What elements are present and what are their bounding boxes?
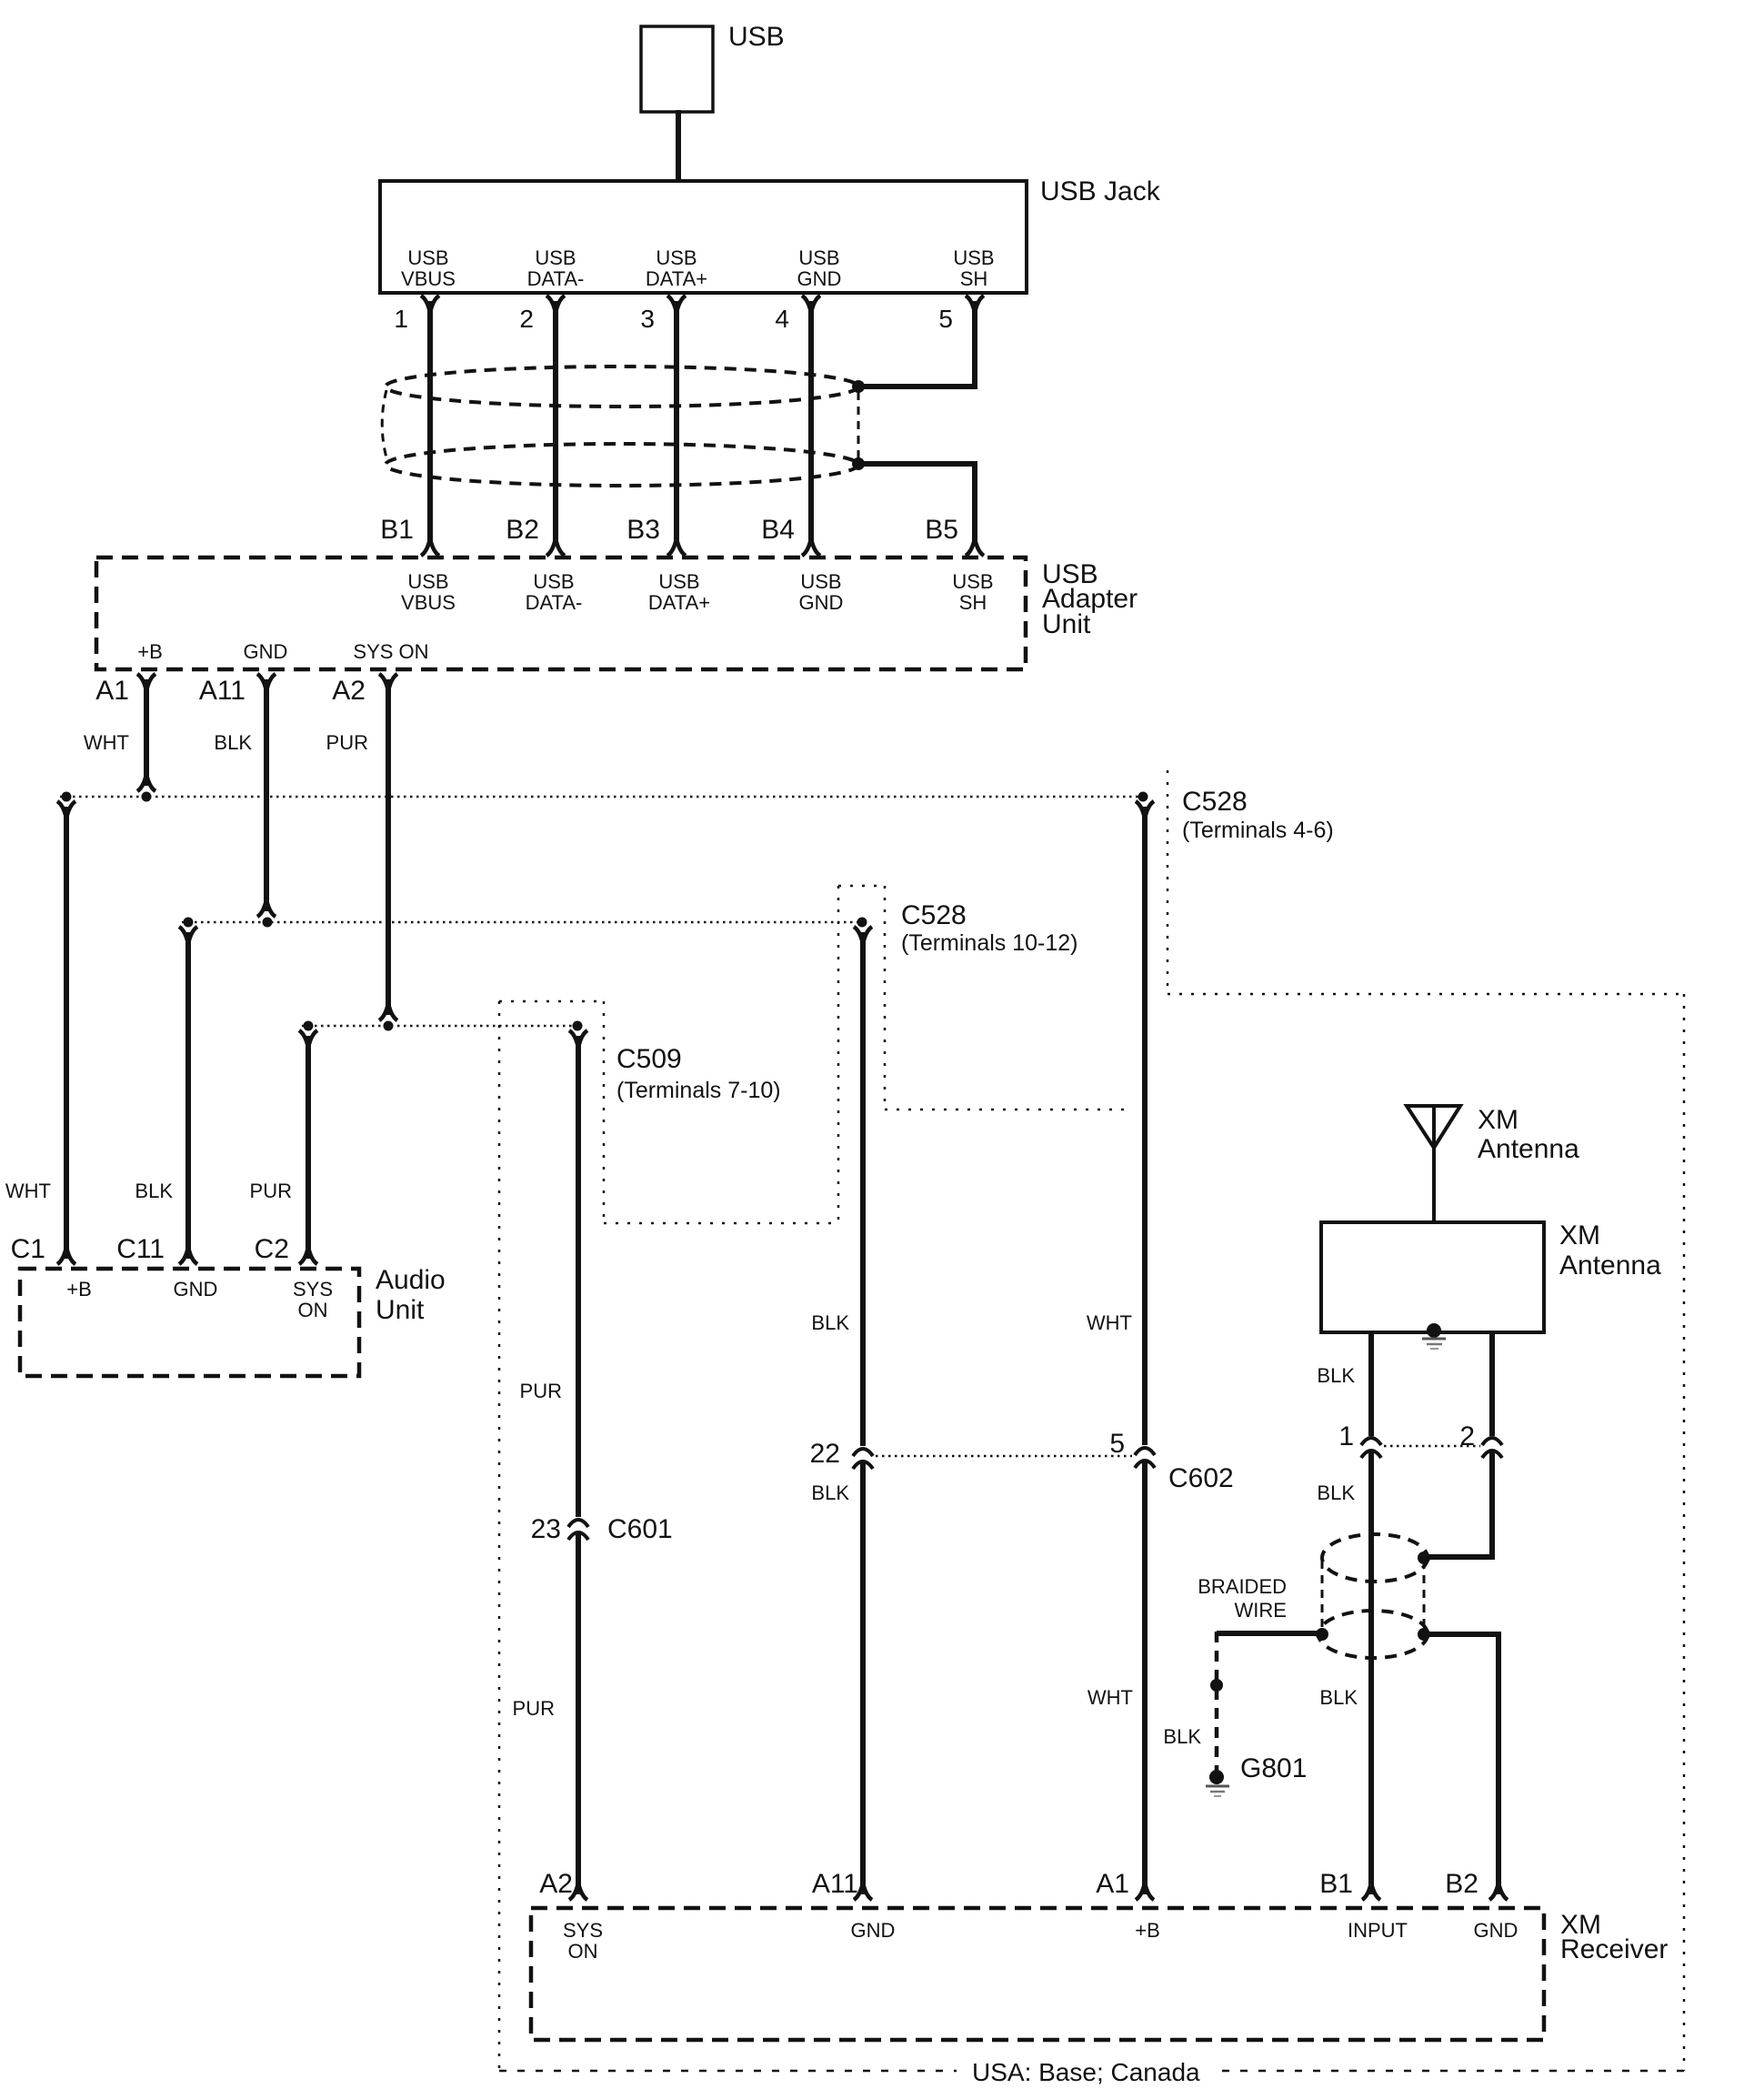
- svg-text:BLK: BLK: [1163, 1725, 1201, 1748]
- svg-text:SH: SH: [960, 267, 988, 290]
- svg-text:USB: USB: [656, 246, 697, 269]
- svg-text:C2: C2: [255, 1234, 289, 1264]
- junction dot C1 start: [62, 792, 72, 802]
- svg-text:GND: GND: [1474, 1919, 1518, 1942]
- wire C11 (BLK): [185, 932, 191, 1259]
- wire +B lower (WHT): [1142, 1461, 1148, 1894]
- junction dot A2 wire: [384, 1021, 394, 1031]
- svg-text:1: 1: [1338, 1421, 1354, 1451]
- svg-text:A2: A2: [332, 676, 366, 706]
- svg-text:GND: GND: [799, 591, 844, 614]
- svg-text:WIRE: WIRE: [1235, 1599, 1287, 1622]
- svg-text:B3: B3: [626, 515, 660, 545]
- svg-text:Unit: Unit: [1042, 609, 1091, 639]
- svg-text:A11: A11: [199, 676, 246, 706]
- svg-text:USB: USB: [533, 570, 574, 593]
- wire antenna GND upper: [1489, 1332, 1495, 1436]
- svg-text:WHT: WHT: [1087, 1686, 1133, 1709]
- connector C602 pin 22: [853, 1449, 873, 1469]
- USB Jack box: [380, 181, 1027, 293]
- boundary left edge: [498, 1001, 501, 2071]
- svg-text:A2: A2: [539, 1869, 573, 1899]
- svg-text:B1: B1: [380, 515, 414, 545]
- shield ellipse lower: [386, 444, 858, 486]
- svg-text:BLK: BLK: [1319, 1686, 1358, 1709]
- svg-text:USB: USB: [728, 22, 785, 52]
- boundary bottom left: [499, 2070, 957, 2073]
- svg-text:B1: B1: [1319, 1869, 1353, 1899]
- wire antenna GND lower: [1424, 1634, 1498, 1894]
- svg-text:22: 22: [810, 1439, 840, 1469]
- svg-text:B4: B4: [761, 515, 795, 545]
- junction dot WHT start: [1138, 792, 1148, 802]
- terminal start GND wire: [854, 927, 872, 940]
- svg-text:WHT: WHT: [5, 1180, 51, 1202]
- svg-text:BLK: BLK: [1317, 1481, 1355, 1504]
- svg-text:SH: SH: [959, 591, 987, 614]
- USB plug box: [641, 26, 713, 112]
- wire GND upper (BLK): [860, 932, 866, 1446]
- boundary segment C509 right: [603, 1001, 606, 1223]
- wire pin 1 to B1: [427, 301, 433, 545]
- svg-text:DATA-: DATA-: [526, 591, 583, 614]
- connector C602 pin 5: [1135, 1448, 1155, 1468]
- svg-text:XM: XM: [1559, 1220, 1600, 1250]
- ground G801 hatch: [1206, 1785, 1229, 1788]
- connector pin 1: [1361, 1438, 1381, 1458]
- junction dot C11 start: [184, 918, 194, 928]
- svg-text:USA: Base; Canada: USA: Base; Canada: [972, 2058, 1200, 2086]
- svg-text:C11: C11: [116, 1234, 165, 1264]
- pin 2 terminal: [546, 296, 565, 309]
- svg-text:+B: +B: [66, 1278, 92, 1301]
- wire A1 end: [137, 778, 155, 791]
- wire A1 (WHT): [144, 679, 149, 786]
- svg-text:C509: C509: [616, 1044, 682, 1074]
- wire C2 (PUR): [306, 1036, 311, 1259]
- svg-text:C528: C528: [901, 900, 967, 930]
- svg-text:WHT: WHT: [84, 731, 129, 754]
- junction dot BLK start: [857, 918, 867, 928]
- boundary segment C528-1012 right: [884, 886, 887, 1110]
- boundary right edge: [1683, 994, 1686, 2071]
- svg-text:DATA+: DATA+: [646, 267, 707, 290]
- junction dot braided top: [1418, 1552, 1430, 1564]
- junction dot A1 wire: [142, 792, 152, 802]
- terminal start +B wire: [1136, 801, 1154, 815]
- svg-text:BRAIDED: BRAIDED: [1198, 1575, 1287, 1598]
- wire antenna INPUT mid (BLK): [1368, 1451, 1374, 1894]
- junction dot G801 splice: [1210, 1679, 1223, 1692]
- boundary segment C528-1012 left: [837, 886, 840, 1223]
- svg-text:B2: B2: [1445, 1869, 1478, 1899]
- wire shield to B5: [858, 464, 975, 545]
- svg-text:XM: XM: [1478, 1105, 1518, 1135]
- antenna connector dotted link: [1384, 1445, 1480, 1448]
- boundary segment C528-1012 lower: [885, 1109, 1128, 1111]
- XM Antenna case ground hatch: [1422, 1338, 1446, 1341]
- braided shield right side: [1423, 1561, 1426, 1632]
- svg-text:VBUS: VBUS: [401, 591, 456, 614]
- svg-text:5: 5: [1109, 1429, 1125, 1459]
- svg-text:(Terminals 10-12): (Terminals 10-12): [901, 930, 1078, 956]
- junction dot braided bottom right: [1418, 1628, 1430, 1641]
- wire A2 (PUR): [386, 679, 391, 1015]
- pin 3 terminal: [667, 296, 686, 309]
- svg-text:VBUS: VBUS: [401, 267, 456, 290]
- svg-text:5: 5: [938, 305, 953, 333]
- svg-text:USB: USB: [798, 246, 839, 269]
- svg-text:Antenna: Antenna: [1559, 1250, 1661, 1280]
- Audio Unit box: [20, 1269, 359, 1376]
- svg-text:SYS: SYS: [563, 1919, 603, 1942]
- pin 5 terminal: [966, 296, 984, 309]
- svg-text:C602: C602: [1168, 1463, 1234, 1493]
- wire A2 end: [379, 1007, 397, 1020]
- svg-text:B5: B5: [925, 515, 958, 545]
- junction dot A11 wire: [263, 918, 273, 928]
- svg-text:+B: +B: [137, 640, 163, 663]
- svg-text:USB Jack: USB Jack: [1040, 176, 1161, 206]
- svg-text:BLK: BLK: [811, 1481, 849, 1504]
- svg-text:A1: A1: [1096, 1869, 1129, 1899]
- svg-text:B2: B2: [506, 515, 539, 545]
- junction dot PUR start: [573, 1021, 583, 1031]
- braided shield ellipse upper: [1322, 1534, 1428, 1582]
- junction dot shield bottom: [852, 457, 865, 470]
- svg-text:A1: A1: [95, 676, 129, 706]
- wire pin 5 upper segment: [864, 301, 975, 387]
- svg-text:(Terminals 7-10): (Terminals 7-10): [616, 1078, 781, 1103]
- svg-text:USB: USB: [800, 570, 841, 593]
- connector C509 terminals 7-10 line: [302, 1025, 577, 1028]
- svg-text:DATA+: DATA+: [648, 591, 710, 614]
- svg-text:PUR: PUR: [513, 1697, 555, 1720]
- terminal start SYS ON wire: [569, 1030, 587, 1044]
- wire pin 4 to B4: [808, 301, 814, 545]
- XM antenna symbol: [1407, 1106, 1460, 1148]
- wire GND lower (BLK): [860, 1462, 866, 1894]
- XM Antenna box: [1321, 1222, 1544, 1332]
- braided shield ellipse lower: [1318, 1611, 1428, 1658]
- shield left cap: [382, 390, 387, 461]
- wire pin 2 to B2: [553, 301, 558, 545]
- svg-text:G801: G801: [1240, 1753, 1307, 1783]
- wire A11 end: [257, 903, 276, 917]
- svg-text:Unit: Unit: [376, 1295, 425, 1325]
- svg-text:USB: USB: [953, 246, 994, 269]
- wire G801 (BLK dashed): [1215, 1632, 1219, 1773]
- boundary segment C509 top: [499, 1000, 604, 1003]
- svg-text:+B: +B: [1135, 1919, 1160, 1942]
- svg-text:Antenna: Antenna: [1478, 1134, 1579, 1164]
- svg-text:SYS ON: SYS ON: [353, 640, 428, 663]
- svg-text:GND: GND: [174, 1278, 218, 1301]
- svg-text:C1: C1: [11, 1234, 45, 1264]
- svg-text:USB: USB: [658, 570, 699, 593]
- svg-text:BLK: BLK: [214, 731, 252, 754]
- svg-text:C601: C601: [607, 1514, 673, 1544]
- junction dot shield top: [852, 380, 865, 393]
- terminal start C11: [179, 927, 197, 940]
- svg-text:SYS: SYS: [293, 1278, 333, 1301]
- connector C601: [568, 1520, 588, 1540]
- svg-text:USB: USB: [535, 246, 576, 269]
- svg-text:USB: USB: [407, 570, 448, 593]
- shield ellipse upper: [386, 367, 858, 407]
- connector C528 terminals 4-6 line: [60, 796, 1143, 798]
- ground G801 dot: [1209, 1770, 1224, 1784]
- wire braided to G801 branch: [1217, 1631, 1322, 1636]
- wire pin 3 to B3: [674, 301, 679, 545]
- svg-text:GND: GND: [851, 1919, 896, 1942]
- wire antenna GND to shield: [1428, 1451, 1492, 1557]
- wire A11 (BLK): [264, 679, 269, 911]
- connector pin 2: [1482, 1438, 1502, 1458]
- svg-text:BLK: BLK: [811, 1311, 849, 1334]
- svg-text:C528: C528: [1182, 787, 1248, 817]
- wire antenna INPUT upper (BLK): [1368, 1332, 1374, 1436]
- wire SYS ON lower (PUR): [576, 1533, 581, 1894]
- terminal start C2: [299, 1030, 317, 1044]
- pin 1 terminal: [421, 296, 439, 309]
- terminal start C1: [57, 801, 75, 815]
- svg-text:Audio: Audio: [376, 1265, 446, 1295]
- svg-text:BLK: BLK: [1317, 1364, 1355, 1387]
- svg-text:2: 2: [519, 305, 534, 333]
- svg-text:3: 3: [640, 305, 655, 333]
- svg-text:GND: GND: [797, 267, 842, 290]
- svg-text:USB: USB: [952, 570, 993, 593]
- svg-text:PUR: PUR: [326, 731, 368, 754]
- svg-text:INPUT: INPUT: [1348, 1919, 1408, 1942]
- wire USB plug to USB Jack: [676, 110, 681, 183]
- svg-text:DATA-: DATA-: [527, 267, 585, 290]
- XM Receiver box: [531, 1908, 1544, 2040]
- C602 dotted link: [876, 1455, 1132, 1458]
- connector C528 terminals 10-12 line: [182, 921, 862, 924]
- svg-text:4: 4: [775, 305, 789, 333]
- boundary segment C528-46 left: [1167, 770, 1169, 994]
- XM Antenna case ground dot: [1427, 1323, 1441, 1338]
- boundary segment C528-1012 top: [838, 885, 885, 888]
- svg-text:GND: GND: [244, 640, 288, 663]
- svg-text:23: 23: [531, 1514, 561, 1544]
- junction dot C2 start: [304, 1021, 314, 1031]
- USB Adapter Unit box: [96, 557, 1026, 669]
- wire C1 (WHT): [64, 807, 69, 1259]
- svg-text:BLK: BLK: [135, 1180, 173, 1202]
- svg-text:A11: A11: [812, 1869, 858, 1899]
- svg-text:PUR: PUR: [520, 1380, 562, 1402]
- boundary segment C509 bottom: [604, 1222, 838, 1225]
- junction dot braided bottom left: [1316, 1628, 1328, 1641]
- boundary segment C528-46 bottom: [1168, 993, 1684, 996]
- svg-text:PUR: PUR: [250, 1180, 292, 1202]
- braided shield left side: [1321, 1561, 1324, 1632]
- pin 4 terminal: [802, 296, 820, 309]
- shield right cap: [857, 392, 860, 458]
- svg-text:1: 1: [394, 305, 408, 333]
- svg-text:Receiver: Receiver: [1560, 1934, 1668, 1964]
- svg-text:ON: ON: [568, 1940, 598, 1963]
- boundary bottom right: [1222, 2070, 1684, 2073]
- svg-text:WHT: WHT: [1087, 1311, 1132, 1334]
- svg-text:USB: USB: [407, 246, 448, 269]
- svg-text:(Terminals 4-6): (Terminals 4-6): [1182, 818, 1334, 843]
- wire +B upper (WHT): [1142, 807, 1148, 1445]
- wire SYS ON upper (PUR): [576, 1036, 581, 1517]
- svg-text:ON: ON: [298, 1299, 328, 1321]
